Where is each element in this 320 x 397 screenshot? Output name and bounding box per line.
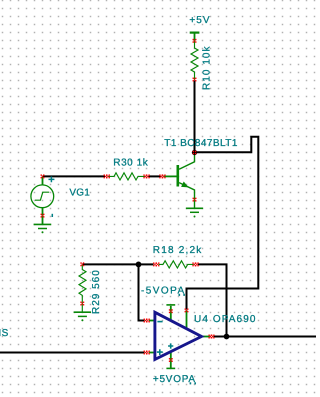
- svg-text:R30 1k: R30 1k: [113, 157, 148, 168]
- svg-text:U4 OPA690: U4 OPA690: [194, 314, 257, 325]
- svg-text:R29 560: R29 560: [91, 269, 102, 314]
- svg-text:+5VOPA: +5VOPA: [153, 374, 196, 385]
- svg-text:R18 2,2k: R18 2,2k: [153, 245, 203, 256]
- svg-text:IS: IS: [0, 328, 9, 339]
- svg-text:R10 10k: R10 10k: [202, 45, 213, 90]
- svg-text:VG1: VG1: [69, 188, 90, 199]
- svg-text:+5V: +5V: [189, 15, 210, 26]
- svg-text:T1 BC847BLT1: T1 BC847BLT1: [164, 138, 238, 149]
